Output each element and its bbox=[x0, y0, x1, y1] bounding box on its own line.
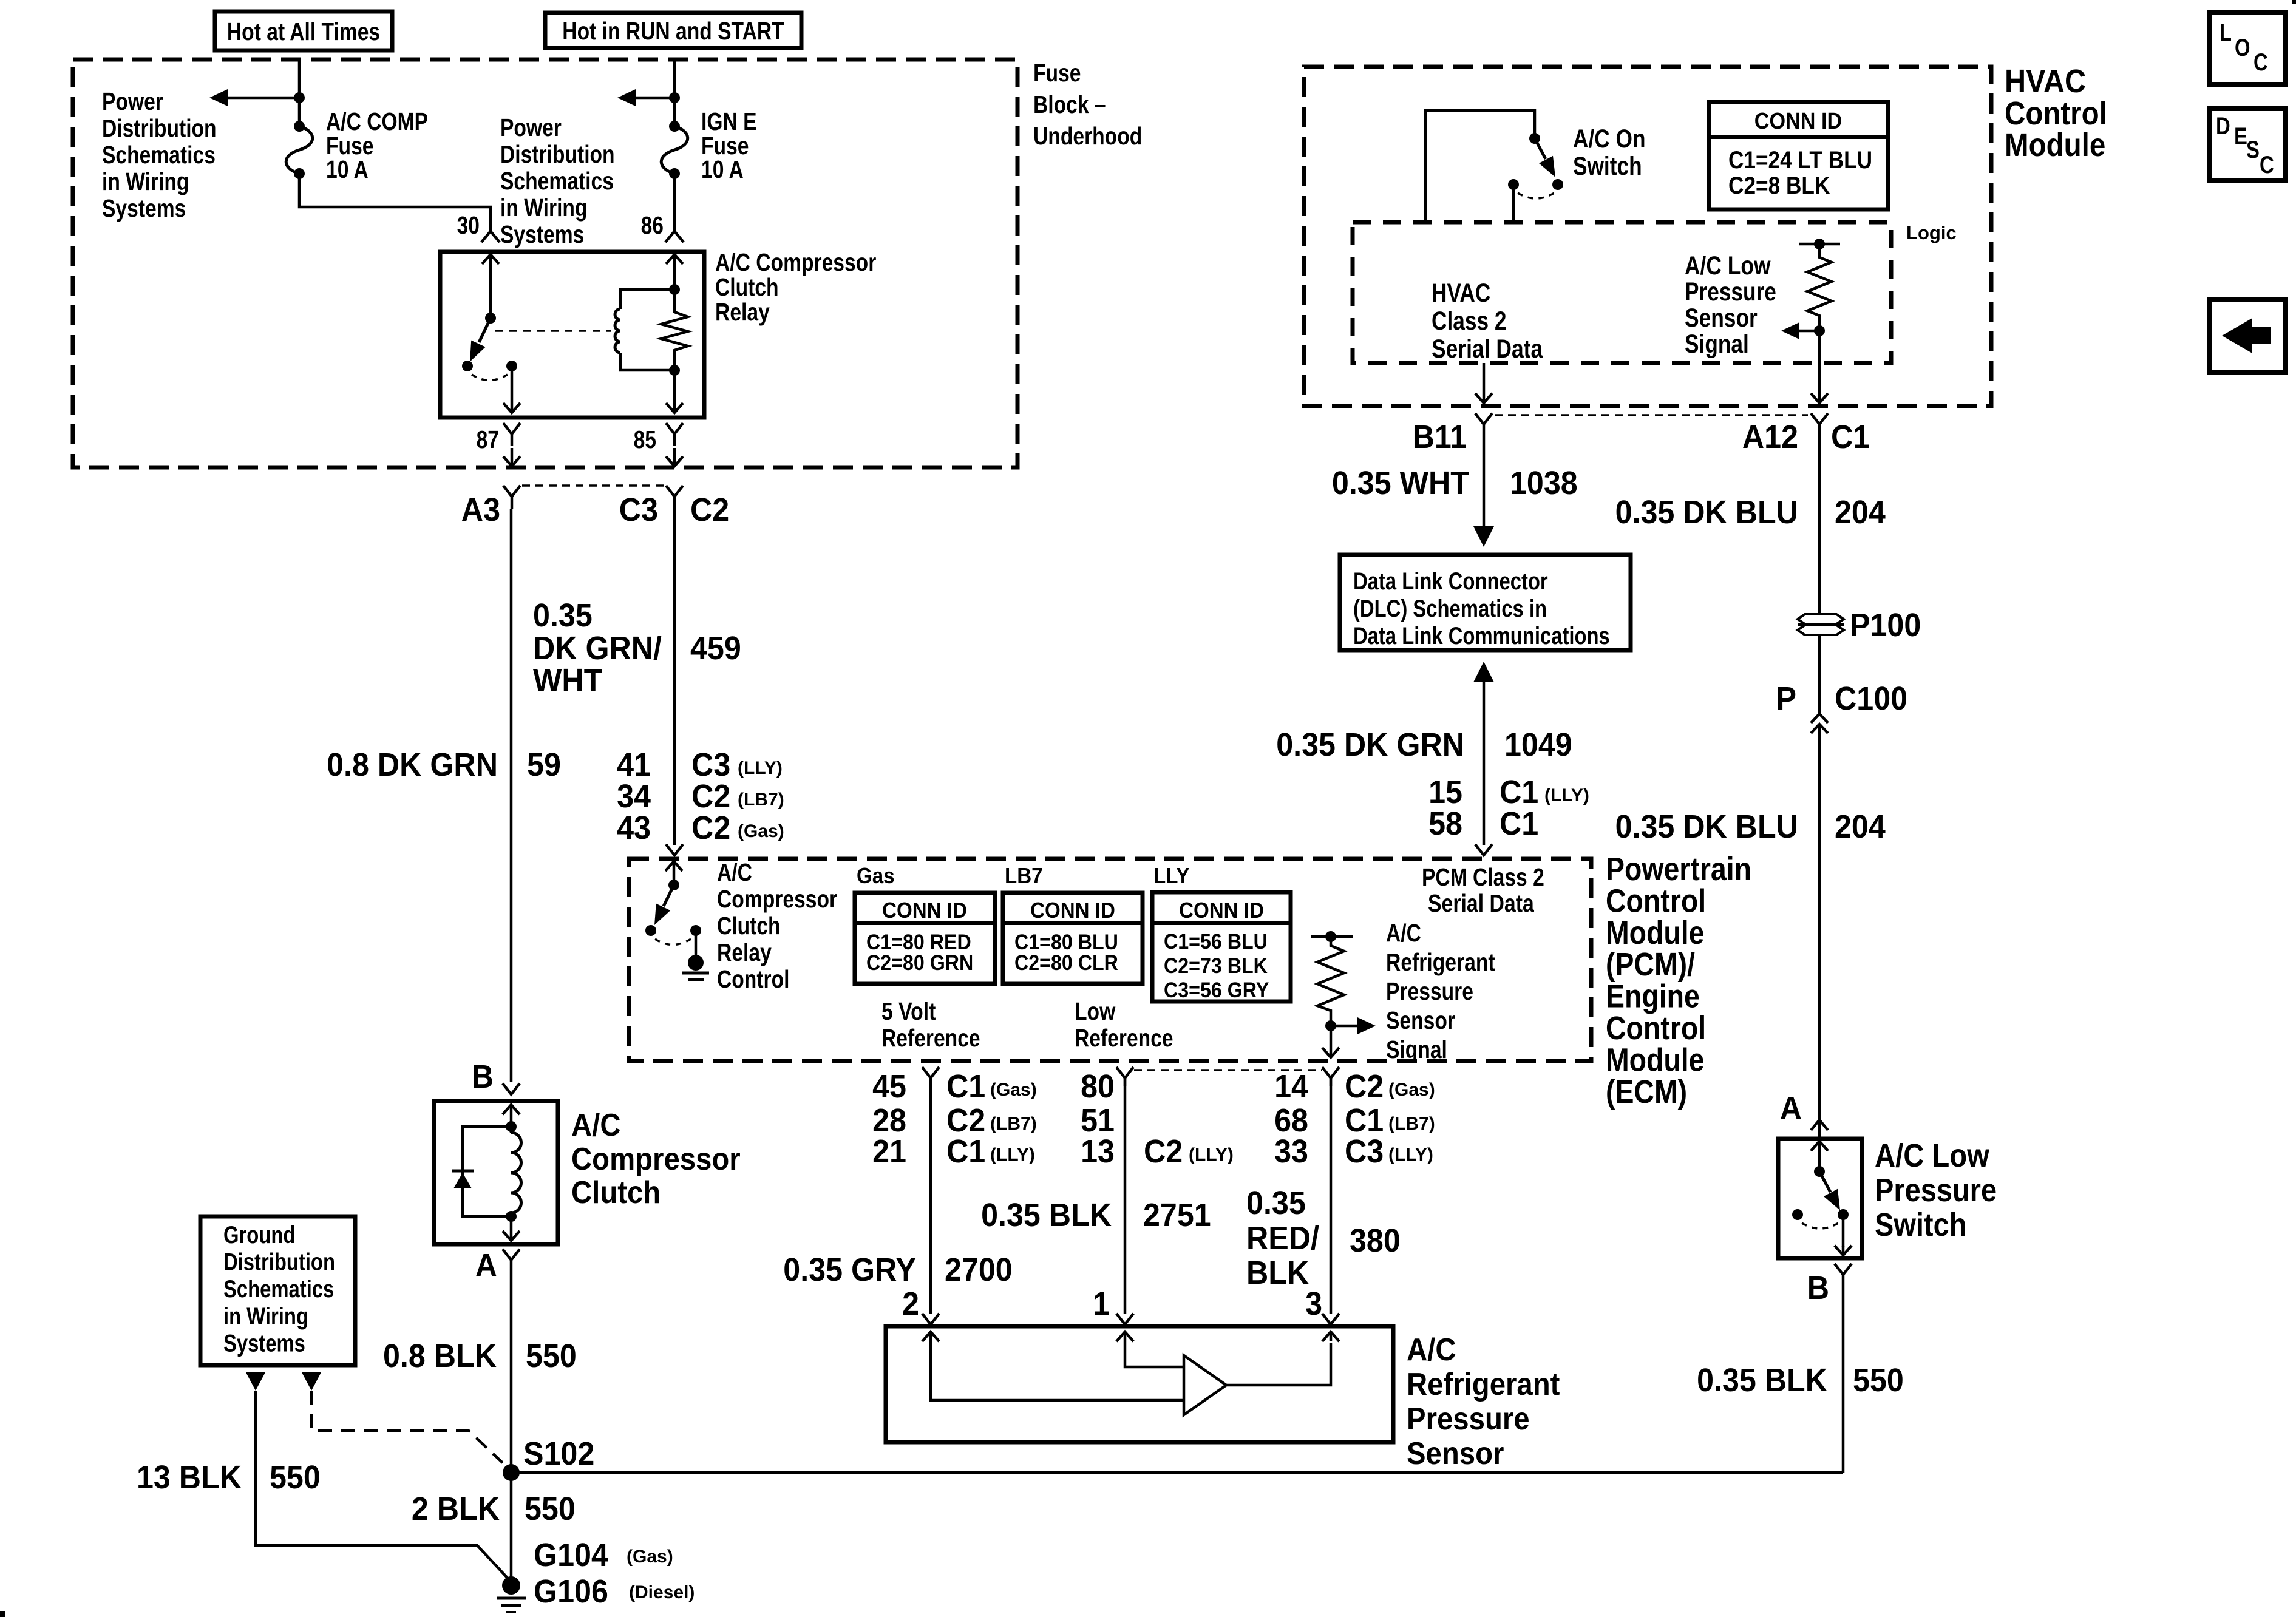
label: PCM Class 2 Serial Data bbox=[1422, 863, 1544, 917]
label: PCM pin rows 41/34/43 bbox=[617, 747, 651, 846]
svg-text:Data Link Communications: Data Link Communications bbox=[1353, 623, 1610, 649]
svg-text:(LLY): (LLY) bbox=[990, 1145, 1035, 1165]
svg-text:0.35 BLK: 0.35 BLK bbox=[1697, 1362, 1827, 1398]
inline connector P100 symbol bbox=[1798, 614, 1844, 635]
wire: 0.8 BLK 550 clutch to S102 bbox=[510, 1269, 513, 1473]
svg-text:Compressor: Compressor bbox=[571, 1142, 741, 1177]
svg-text:Schematics: Schematics bbox=[500, 167, 614, 195]
label: wire 0.35 DK BLU (lower) bbox=[1615, 808, 1798, 845]
clutch coil bottom node bbox=[506, 1211, 517, 1222]
label: wire 0.35 DK BLU (upper) bbox=[1615, 494, 1798, 531]
svg-text:L: L bbox=[2220, 19, 2232, 46]
PCM pressure-sensor signal pull-up tap bar bbox=[1311, 935, 1353, 938]
A/C Refrigerant Pressure Sensor box bbox=[886, 1326, 1393, 1442]
svg-text:Engine: Engine bbox=[1606, 978, 1700, 1015]
node: signal junction bbox=[1325, 1020, 1336, 1031]
svg-text:Systems: Systems bbox=[500, 220, 584, 248]
ground distribution solid triangle (13 BLK feed) bbox=[246, 1372, 265, 1391]
svg-text:Pressure: Pressure bbox=[1407, 1402, 1530, 1437]
svg-text:Reference: Reference bbox=[881, 1024, 980, 1052]
HVAC sensor pull-up tap bar bbox=[1799, 243, 1840, 246]
svg-text:C2: C2 bbox=[691, 778, 730, 815]
svg-text:15: 15 bbox=[1428, 774, 1462, 810]
svg-text:Control: Control bbox=[2005, 95, 2107, 132]
CONN ID table (LB7) bbox=[1003, 893, 1143, 984]
label: Powertrain Control Module (PCM)/ Engine Control Module (ECM) bbox=[1606, 851, 1751, 1110]
clutch coil L2 bbox=[511, 1127, 521, 1216]
wire: circuit 204 between P100 and C100 bbox=[1818, 635, 1821, 714]
wire: circuit 1038 B11 to DLC bbox=[1483, 432, 1486, 522]
label: circuit 2700 bbox=[945, 1252, 1013, 1288]
wire: sensor signal circuit 380 bbox=[1330, 1078, 1333, 1314]
clutch diode D1 bbox=[452, 1171, 474, 1188]
svg-text:C: C bbox=[2260, 152, 2274, 178]
svg-text:58: 58 bbox=[1428, 805, 1462, 842]
svg-text:A/C: A/C bbox=[1386, 919, 1421, 947]
terminal A of pressure switch bbox=[1811, 1120, 1828, 1139]
label: 5 Volt Reference bbox=[881, 997, 980, 1052]
switch arm bbox=[1819, 1171, 1840, 1210]
svg-text:DK GRN/: DK GRN/ bbox=[533, 630, 662, 666]
label: circuit 550 (switch) bbox=[1853, 1362, 1904, 1398]
svg-text:S102: S102 bbox=[523, 1436, 594, 1472]
svg-text:Systems: Systems bbox=[223, 1330, 305, 1357]
PCM signal resistor R2 bbox=[1317, 937, 1344, 1026]
svg-text:45: 45 bbox=[872, 1068, 906, 1105]
svg-text:C1: C1 bbox=[1500, 774, 1538, 810]
terminal chevron into PCM (relay control) bbox=[666, 844, 683, 855]
HVAC pull-up resistor R3 bbox=[1807, 244, 1832, 331]
terminal A of clutch bbox=[503, 1249, 520, 1269]
relay coil control dashed link to switch bbox=[495, 330, 611, 332]
label: terminal A bbox=[475, 1247, 497, 1284]
arrow: A/C Refrigerant Pressure Sensor Signal (right) bbox=[1331, 1017, 1376, 1034]
node: HVAC signal junction bbox=[1814, 325, 1825, 336]
svg-text:Relay: Relay bbox=[717, 938, 772, 966]
terminal A12/C1 bbox=[1811, 413, 1828, 432]
switch travel dashed arc bbox=[1802, 1223, 1838, 1229]
svg-text:5 Volt: 5 Volt bbox=[881, 997, 936, 1025]
terminal pin 86 chevron bbox=[665, 231, 684, 242]
arrow: to Power Distribution Schematics (middle) bbox=[617, 89, 674, 106]
svg-text:C1: C1 bbox=[1500, 805, 1538, 842]
switch contact node (right) bbox=[1838, 1209, 1849, 1220]
svg-text:A/C On: A/C On bbox=[1573, 124, 1646, 154]
svg-text:B11: B11 bbox=[1413, 419, 1467, 455]
svg-text:C1: C1 bbox=[1831, 419, 1870, 455]
svg-text:C: C bbox=[2254, 49, 2268, 76]
svg-text:C100: C100 bbox=[1835, 680, 1907, 717]
svg-text:Systems: Systems bbox=[102, 194, 186, 222]
svg-text:80: 80 bbox=[1081, 1068, 1115, 1105]
svg-text:13 BLK: 13 BLK bbox=[137, 1459, 242, 1496]
svg-text:PCM Class 2: PCM Class 2 bbox=[1422, 863, 1544, 891]
svg-text:(LLY): (LLY) bbox=[1189, 1145, 1234, 1165]
svg-text:Clutch: Clutch bbox=[717, 912, 781, 940]
wire: IGN E fuse to relay pin 86 bbox=[673, 174, 676, 231]
svg-text:459: 459 bbox=[690, 630, 741, 666]
power feed banner box: Hot in RUN and START bbox=[545, 13, 801, 48]
svg-text:Compressor: Compressor bbox=[717, 885, 837, 913]
svg-text:Serial Data: Serial Data bbox=[1432, 334, 1543, 364]
sensor amplifier (op-amp triangle) bbox=[1184, 1355, 1226, 1415]
svg-text:Sensor: Sensor bbox=[1685, 303, 1758, 333]
relay coil L1 bbox=[615, 290, 674, 370]
svg-text:Pressure: Pressure bbox=[1875, 1172, 1997, 1209]
wire+arrow: pin 85 exits fuse block bbox=[666, 448, 683, 466]
relay resistor R1 (parallel with coil) bbox=[661, 292, 688, 368]
wire: Hot at All Times feed down to A/C COMP fuse bbox=[298, 59, 301, 126]
svg-text:30: 30 bbox=[457, 211, 480, 239]
label: terminal C2 bbox=[690, 492, 729, 528]
relay pin 30 internal arrow bbox=[482, 254, 499, 318]
svg-text:BLK: BLK bbox=[1246, 1255, 1309, 1291]
label: wire 0.8 DK GRN bbox=[327, 747, 498, 783]
svg-text:E: E bbox=[2234, 123, 2247, 150]
svg-text:C2: C2 bbox=[691, 810, 730, 846]
svg-text:0.35 DK GRN: 0.35 DK GRN bbox=[1276, 727, 1464, 763]
svg-text:Clutch: Clutch bbox=[571, 1175, 661, 1210]
label: circuit 459 bbox=[690, 630, 741, 666]
svg-text:Schematics: Schematics bbox=[102, 141, 216, 169]
terminal B of pressure switch bbox=[1835, 1264, 1852, 1282]
label: terminal C1 (HVAC) bbox=[1831, 419, 1870, 455]
terminal chevron: 5V ref out of PCM bbox=[922, 1067, 939, 1086]
terminal chevron into PCM (class 2 data) bbox=[1475, 844, 1492, 855]
svg-text:380: 380 bbox=[1350, 1222, 1401, 1259]
svg-text:550: 550 bbox=[270, 1459, 321, 1496]
relay coil top node bbox=[669, 284, 680, 295]
label: circuit 550 (0.8 BLK) bbox=[526, 1338, 577, 1374]
CONN ID table (LLY) bbox=[1152, 892, 1291, 1002]
svg-text:87: 87 bbox=[477, 425, 499, 453]
svg-text:A/C Compressor: A/C Compressor bbox=[715, 248, 876, 276]
svg-text:Pressure: Pressure bbox=[1685, 277, 1776, 307]
label: terminal A12 bbox=[1742, 419, 1798, 455]
svg-text:10 A: 10 A bbox=[701, 155, 744, 183]
ground symbol G104/G106 bbox=[497, 1598, 526, 1612]
svg-text:(LB7): (LB7) bbox=[738, 790, 784, 810]
terminal pin 85 chevron below relay bbox=[666, 423, 683, 446]
wire: relay contact to pin 87 with internal arrow bbox=[503, 366, 520, 413]
svg-text:(LB7): (LB7) bbox=[1388, 1114, 1435, 1134]
svg-text:(LB7): (LB7) bbox=[990, 1114, 1037, 1134]
svg-text:550: 550 bbox=[525, 1491, 576, 1527]
wire: Hot in RUN and START feed down to IGN E fuse bbox=[673, 59, 676, 126]
label: S102 bbox=[523, 1436, 594, 1472]
svg-text:14: 14 bbox=[1274, 1068, 1308, 1105]
A/C Compressor Clutch box bbox=[434, 1101, 558, 1244]
label: Data Link Connector (DLC) Schematics in Data Link Communications bbox=[1353, 568, 1610, 649]
note text: Power Distribution Schematics in Wiring Systems (left) bbox=[102, 87, 217, 222]
HVAC logic dashed box bbox=[1353, 222, 1891, 363]
label: circuit 380 bbox=[1350, 1222, 1401, 1259]
svg-text:(LLY): (LLY) bbox=[738, 758, 783, 778]
svg-text:CONN ID: CONN ID bbox=[882, 898, 967, 923]
svg-text:Fuse: Fuse bbox=[1033, 59, 1081, 87]
wire: PCM driver contact to internal ground bbox=[695, 931, 698, 955]
svg-text:C2=8 BLK: C2=8 BLK bbox=[1728, 172, 1830, 199]
svg-text:59: 59 bbox=[527, 747, 561, 783]
svg-text:85: 85 bbox=[634, 425, 656, 453]
svg-text:(Gas): (Gas) bbox=[990, 1080, 1037, 1100]
svg-text:C2=80 CLR: C2=80 CLR bbox=[1014, 951, 1118, 975]
svg-text:86: 86 bbox=[641, 211, 664, 239]
relay switch arm (to pin 87 contact) bbox=[470, 318, 491, 362]
svg-text:Power: Power bbox=[500, 114, 562, 141]
svg-text:1049: 1049 bbox=[1504, 727, 1572, 763]
relay contact node (arm side) bbox=[462, 361, 473, 371]
svg-text:Pressure: Pressure bbox=[1386, 977, 1473, 1005]
svg-text:Sensor: Sensor bbox=[1386, 1006, 1455, 1034]
A/C On Switch arm bbox=[1535, 138, 1555, 177]
label: A/C COMP Fuse 10 A bbox=[326, 107, 428, 183]
svg-text:G104: G104 bbox=[534, 1537, 608, 1573]
svg-text:Signal: Signal bbox=[1386, 1036, 1447, 1063]
svg-text:Switch: Switch bbox=[1875, 1207, 1966, 1243]
connector boundary thin dashed line (A3 to C3) bbox=[522, 484, 664, 487]
label: A/C Refrigerant Pressure Sensor Signal bbox=[1386, 919, 1495, 1063]
wire+arrow: HVAC serial data out (B11) bbox=[1475, 363, 1492, 403]
label: sensor pin 3 bbox=[1305, 1286, 1322, 1322]
sensor pin1 internal arrow + lead bbox=[1116, 1332, 1183, 1367]
label: circuit 550 (2 BLK) bbox=[525, 1491, 576, 1527]
label: wire 0.35 DK GRN bbox=[1276, 727, 1464, 763]
svg-text:LB7: LB7 bbox=[1005, 863, 1043, 888]
svg-text:A: A bbox=[1780, 1090, 1802, 1127]
relay switch pivot node bbox=[485, 313, 496, 324]
svg-text:A/C: A/C bbox=[717, 858, 752, 886]
label: sensor pin 1 bbox=[1093, 1286, 1110, 1322]
terminal B of clutch bbox=[503, 1083, 520, 1094]
label: wire 0.35 DK GRN/WHT bbox=[533, 597, 662, 699]
svg-text:B: B bbox=[1807, 1270, 1829, 1306]
svg-text:21: 21 bbox=[872, 1133, 906, 1170]
wire: 5V reference circuit 2700 bbox=[929, 1078, 932, 1314]
svg-text:A/C Low: A/C Low bbox=[1875, 1137, 1990, 1174]
node: junction on A/C COMP feed bbox=[294, 92, 305, 103]
svg-text:550: 550 bbox=[1853, 1362, 1904, 1398]
svg-text:2 BLK: 2 BLK bbox=[412, 1491, 500, 1527]
svg-text:C2: C2 bbox=[690, 492, 729, 528]
nav icon: DESC box bbox=[2210, 109, 2285, 180]
label: pin 87 bbox=[477, 425, 499, 453]
svg-text:Serial Data: Serial Data bbox=[1428, 889, 1535, 917]
label: wire 0.35 WHT bbox=[1332, 465, 1469, 501]
label: PCM pins 80/51/13 bbox=[1081, 1068, 1115, 1170]
svg-text:A3: A3 bbox=[461, 492, 500, 528]
node: signal tap top bbox=[1325, 931, 1336, 942]
svg-text:CONN ID: CONN ID bbox=[1179, 898, 1264, 923]
svg-text:(LLY): (LLY) bbox=[1544, 785, 1589, 805]
svg-text:Ground: Ground bbox=[223, 1222, 295, 1249]
sensor output lead + arrow to pin 3 bbox=[1226, 1332, 1339, 1385]
svg-text:Module: Module bbox=[1606, 915, 1705, 951]
svg-text:Block –: Block – bbox=[1033, 90, 1106, 118]
label: A/C Low Pressure Sensor Signal bbox=[1685, 251, 1776, 359]
svg-text:Schematics: Schematics bbox=[223, 1276, 334, 1303]
svg-text:204: 204 bbox=[1835, 494, 1886, 531]
svg-text:0.35 BLK: 0.35 BLK bbox=[981, 1197, 1112, 1233]
label: P100 bbox=[1850, 607, 1921, 643]
svg-text:C1: C1 bbox=[946, 1068, 985, 1105]
svg-text:(Gas): (Gas) bbox=[1388, 1080, 1435, 1100]
terminal chevron: low ref out of PCM bbox=[1116, 1067, 1133, 1086]
svg-text:1: 1 bbox=[1093, 1286, 1110, 1322]
label: LLY (engine variant) bbox=[1153, 863, 1190, 888]
wire: S102 down to ground bbox=[510, 1473, 513, 1578]
svg-text:C1=24 LT BLU: C1=24 LT BLU bbox=[1728, 147, 1872, 174]
svg-text:41: 41 bbox=[617, 747, 651, 783]
svg-text:204: 204 bbox=[1835, 808, 1886, 845]
svg-text:B: B bbox=[472, 1059, 494, 1095]
svg-text:Power: Power bbox=[102, 87, 163, 115]
svg-text:Refrigerant: Refrigerant bbox=[1386, 948, 1495, 976]
Data Link Connector box bbox=[1340, 555, 1631, 650]
label: A/C Refrigerant Pressure Sensor bbox=[1407, 1332, 1560, 1471]
label: wire 0.35 GRY bbox=[783, 1252, 916, 1288]
svg-text:A/C: A/C bbox=[1407, 1332, 1456, 1368]
label: Fuse Block - Underhood bbox=[1033, 59, 1142, 150]
clutch diode D1 branch bbox=[463, 1127, 511, 1216]
svg-text:Data Link Connector: Data Link Connector bbox=[1353, 568, 1548, 595]
svg-text:Control: Control bbox=[1606, 883, 1706, 919]
A/C On Switch travel dashed arc bbox=[1518, 193, 1554, 198]
label: terminal B bbox=[472, 1059, 494, 1095]
svg-text:Distribution: Distribution bbox=[500, 140, 615, 168]
label: pin 85 bbox=[634, 425, 656, 453]
svg-text:0.35: 0.35 bbox=[1246, 1185, 1306, 1221]
sensor pin2 internal arrow + lead bbox=[922, 1332, 1183, 1400]
nav icon: LOC box bbox=[2210, 13, 2285, 84]
connector boundary thin dashed (B11 to A12) bbox=[1495, 414, 1808, 416]
ground node G104/G106 bbox=[502, 1576, 520, 1595]
Ground Distribution note box bbox=[200, 1216, 355, 1365]
PCM internal ground node bbox=[688, 955, 704, 971]
label: wire 13 BLK bbox=[137, 1459, 242, 1496]
PCM relay-control driver arrow bbox=[665, 861, 682, 885]
page corner tick (bottom-left) bbox=[0, 1611, 5, 1617]
note text: Power Distribution Schematics in Wiring Systems (middle) bbox=[500, 114, 615, 248]
svg-text:C3: C3 bbox=[619, 492, 658, 528]
CONN ID table (Gas) bbox=[855, 893, 995, 984]
svg-text:(Gas): (Gas) bbox=[738, 821, 784, 841]
terminal pin 87 chevron below relay bbox=[503, 423, 520, 446]
svg-text:Class 2: Class 2 bbox=[1432, 307, 1507, 336]
label: terminal P bbox=[1776, 680, 1797, 717]
svg-text:Signal: Signal bbox=[1685, 330, 1749, 359]
terminal pin 30 chevron bbox=[481, 231, 500, 242]
svg-text:Distribution: Distribution bbox=[223, 1249, 335, 1276]
svg-text:A12: A12 bbox=[1742, 419, 1798, 455]
label: A/C Compressor Clutch Relay bbox=[715, 248, 876, 326]
svg-text:Hot at All Times: Hot at All Times bbox=[227, 18, 380, 46]
svg-text:Control: Control bbox=[1606, 1010, 1706, 1046]
svg-text:LLY: LLY bbox=[1153, 863, 1190, 888]
label: PCM pins 45/28/21 bbox=[872, 1068, 906, 1170]
svg-text:0.35 WHT: 0.35 WHT bbox=[1332, 465, 1469, 501]
wire: A/C COMP fuse to relay pin 30 bbox=[299, 174, 491, 231]
svg-text:34: 34 bbox=[617, 778, 651, 815]
svg-text:A/C: A/C bbox=[571, 1108, 621, 1143]
label: Low Reference bbox=[1075, 997, 1173, 1052]
svg-text:0.35 DK BLU: 0.35 DK BLU bbox=[1615, 808, 1798, 845]
relay switch travel dashed arc bbox=[472, 375, 508, 381]
sensor chevron pin 1 bbox=[1116, 1314, 1133, 1324]
svg-text:A/C Low: A/C Low bbox=[1685, 251, 1771, 280]
wire: circuit 204 lower segment bbox=[1818, 724, 1821, 1119]
label: PCM connector rows C3 (LLY) / C2 (LB7) / C2 (Gas) bbox=[691, 747, 784, 846]
svg-text:Logic: Logic bbox=[1906, 222, 1957, 243]
ground distribution solid triangle (dashed feed) bbox=[302, 1372, 321, 1391]
svg-text:0.35 GRY: 0.35 GRY bbox=[783, 1252, 916, 1288]
svg-text:S: S bbox=[2246, 137, 2260, 163]
connector terminal C3/C2 bbox=[666, 486, 683, 509]
svg-text:C3: C3 bbox=[691, 747, 730, 783]
svg-text:(Diesel): (Diesel) bbox=[629, 1582, 695, 1602]
svg-text:0.8 BLK: 0.8 BLK bbox=[383, 1338, 497, 1374]
label: A/C Low Pressure Switch bbox=[1875, 1137, 1997, 1243]
relay contact node (pin 87 side) bbox=[506, 361, 517, 371]
wire: switch contact to terminal B bbox=[1835, 1215, 1852, 1255]
svg-text:(Gas): (Gas) bbox=[627, 1547, 673, 1567]
wire: circuit 204 upper segment bbox=[1818, 432, 1821, 614]
svg-text:CONN ID: CONN ID bbox=[1754, 109, 1842, 134]
wire: A/C On Switch to logic bbox=[1512, 185, 1515, 221]
label: HVAC Class 2 Serial Data bbox=[1432, 279, 1543, 364]
clutch ground-side internal arrow bbox=[503, 1216, 520, 1241]
label: wire 0.35 BLK bbox=[981, 1197, 1112, 1233]
svg-text:P: P bbox=[1776, 680, 1797, 717]
svg-text:G106: G106 bbox=[534, 1573, 608, 1610]
svg-text:1038: 1038 bbox=[1510, 465, 1578, 501]
label: terminal B11 bbox=[1413, 419, 1467, 455]
connector boundary thin dashed (80-wire to 14-wire) bbox=[1134, 1069, 1322, 1071]
power feed banner box: Hot at All Times bbox=[215, 12, 392, 50]
svg-text:550: 550 bbox=[526, 1338, 577, 1374]
PCM/ECM dashed outline bbox=[629, 859, 1591, 1061]
A/C Low Pressure Switch box bbox=[1778, 1139, 1862, 1258]
label: connector C100 bbox=[1835, 680, 1907, 717]
svg-text:HVAC: HVAC bbox=[1432, 279, 1490, 308]
A/C On Switch contact node (left) bbox=[1508, 179, 1519, 190]
svg-text:C2=80 GRN: C2=80 GRN bbox=[866, 951, 973, 975]
PCM internal ground symbol bbox=[682, 973, 709, 980]
HVAC CONN ID table bbox=[1709, 102, 1888, 209]
svg-text:Switch: Switch bbox=[1573, 152, 1642, 181]
svg-text:Reference: Reference bbox=[1075, 1024, 1173, 1052]
relay coil bottom node bbox=[669, 365, 680, 376]
svg-text:Clutch: Clutch bbox=[715, 273, 779, 301]
svg-text:Underhood: Underhood bbox=[1033, 122, 1142, 150]
svg-text:C2=73 BLK: C2=73 BLK bbox=[1164, 954, 1268, 978]
svg-text:(PCM)/: (PCM)/ bbox=[1606, 946, 1695, 983]
label: circuit 2751 bbox=[1143, 1197, 1211, 1233]
label: circuit 550 (13 BLK) bbox=[270, 1459, 321, 1496]
label: terminal A (switch) bbox=[1780, 1090, 1802, 1127]
svg-text:C3=56 GRY: C3=56 GRY bbox=[1164, 978, 1269, 1002]
wire: circuit 59 from A3 to A/C compressor clutch B bbox=[510, 509, 513, 1082]
label: G106 (Diesel) bbox=[534, 1573, 695, 1610]
svg-text:Low: Low bbox=[1075, 997, 1115, 1025]
svg-text:2751: 2751 bbox=[1143, 1197, 1211, 1233]
clutch feed internal arrow bbox=[503, 1105, 520, 1127]
svg-text:O: O bbox=[2235, 35, 2250, 61]
label: circuit 59 bbox=[527, 747, 561, 783]
svg-text:C2: C2 bbox=[1345, 1068, 1384, 1105]
switch contact node (left) bbox=[1792, 1209, 1803, 1220]
svg-text:in Wiring: in Wiring bbox=[500, 194, 588, 222]
